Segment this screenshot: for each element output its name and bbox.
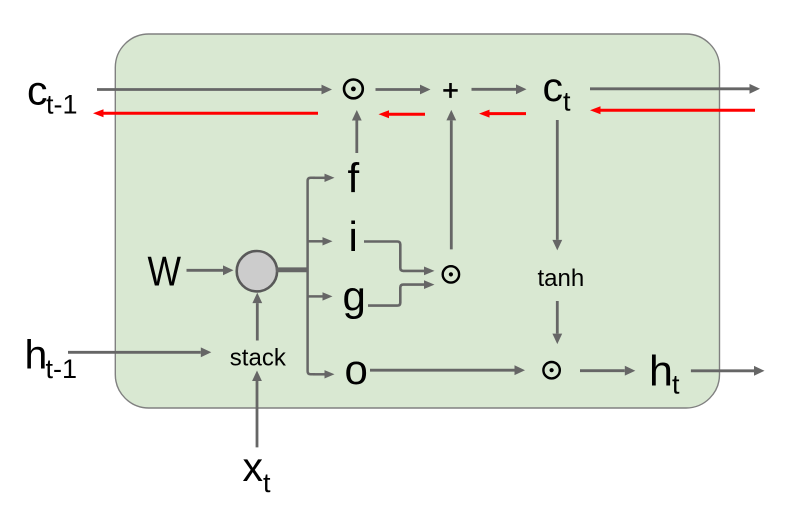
wire W to stack node (187, 265, 234, 275)
node elementwise-mul mid (443, 266, 459, 282)
svg-text:i: i (349, 213, 358, 260)
svg-text:h: h (649, 348, 673, 396)
label c_t-1 (27, 67, 78, 119)
label c_t (543, 64, 572, 117)
wire x_t to stack (252, 371, 262, 448)
wire mul-bottom to h_t (580, 366, 635, 376)
wire mul to plus node (forward) (376, 85, 431, 95)
svg-text:t: t (563, 87, 571, 117)
svg-text:c: c (543, 64, 564, 110)
wire o to mul-bottom (370, 365, 525, 375)
wire f to mul-top (352, 110, 362, 153)
svg-text:W: W (148, 248, 182, 295)
label x_t (243, 444, 272, 498)
wire c_t-1 to elementwise-mul node (forward) (97, 85, 332, 95)
svg-text:h: h (25, 332, 48, 378)
svg-text:stack: stack (230, 345, 287, 372)
wire bus to f (313, 174, 335, 182)
node plus (add gate) (443, 83, 457, 98)
red gradient wire into c_t from right (backward) (590, 106, 755, 114)
svg-text:t-1: t-1 (46, 354, 78, 384)
wire stack label to node (252, 293, 262, 341)
LSTM cell body (green rounded box) (115, 34, 719, 408)
wire bus to i (307, 237, 333, 245)
wire h_t-1 to stack (68, 347, 211, 357)
svg-text:t-1: t-1 (46, 89, 78, 119)
wire plus to c_t (forward) (472, 84, 527, 94)
svg-text:t: t (672, 370, 680, 400)
label h_t-1 (25, 332, 78, 385)
wire bus to g (307, 292, 333, 300)
wire g to mul-mid (368, 280, 435, 305)
node elementwise-mul bottom (543, 362, 559, 378)
red gradient wire c_t to plus (backward) (479, 110, 526, 118)
wire gate bus vertical (308, 178, 315, 374)
wire tanh to mul-bottom (552, 301, 562, 344)
node stack (gray circle) (237, 251, 277, 291)
wire c_t down to tanh (552, 120, 562, 250)
wire h_t out right (691, 366, 765, 376)
wire bus to o (313, 370, 335, 378)
wire stack node to gate bus (276, 267, 308, 272)
red gradient wire c_t-1 (backward) (93, 109, 318, 117)
wire i to mul-mid (364, 242, 435, 276)
svg-text:g: g (343, 273, 366, 320)
wire mul-mid to plus (446, 110, 456, 250)
svg-text:t: t (263, 468, 271, 498)
svg-text:x: x (243, 444, 264, 490)
svg-text:c: c (27, 67, 48, 113)
wire c_t out right (forward) (590, 84, 760, 94)
svg-text:o: o (345, 346, 368, 393)
label h_t (649, 348, 680, 400)
red gradient wire plus to mul (backward) (379, 110, 426, 118)
svg-text:f: f (348, 154, 360, 201)
node elementwise-mul top (344, 80, 363, 99)
svg-text:tanh: tanh (538, 265, 585, 292)
